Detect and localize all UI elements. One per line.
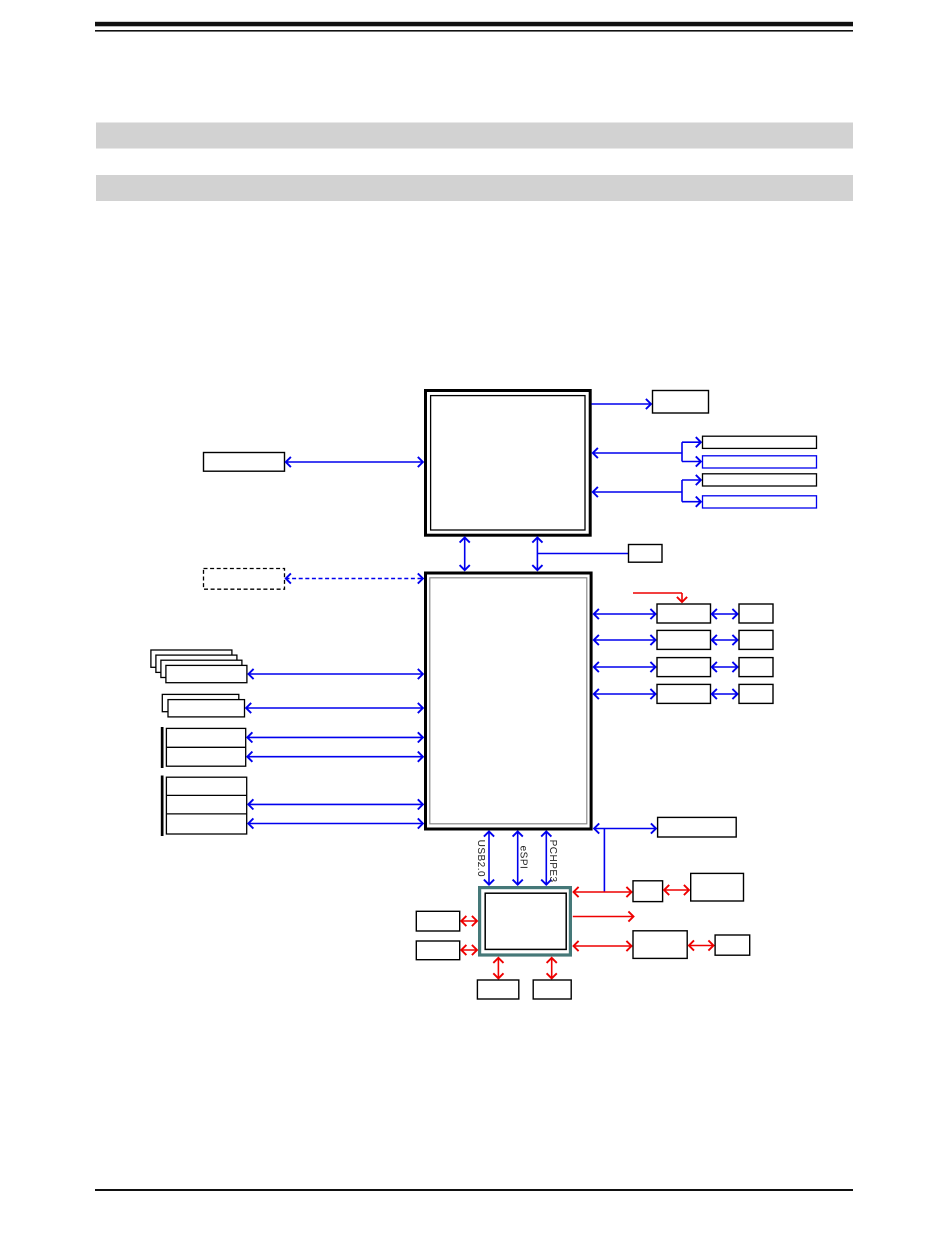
USB port stack (4 layered boxes) [151, 650, 247, 683]
svg-text:USB2.0: USB2.0 [475, 840, 486, 877]
BMC block U3 [480, 888, 571, 955]
svg-text:eSPI: eSPI [518, 846, 529, 870]
wire header B row 3 to PCH [248, 823, 423, 825]
wire PCH to M.2 row 4 [594, 693, 656, 695]
wire COM header to BMC [461, 920, 477, 922]
label eSPI [518, 846, 529, 870]
jumper box 2 [533, 980, 571, 999]
wire DMI tap to TPM box [537, 553, 628, 555]
COM header box (left of BMC, row 1) [416, 911, 459, 931]
wire BMC VGA stub (row 2) [573, 916, 634, 918]
wire PHY to LAN port box [664, 889, 690, 891]
wire BMC to jumper box 1 [497, 958, 499, 979]
wire M.2 box 4 to port 4 [712, 693, 738, 695]
header thin rule [95, 30, 853, 32]
wire PCH-BMC USB2.0 link [488, 831, 490, 885]
wire PCH to M.2 row 1 [594, 613, 656, 615]
svg-text:PCHPE3: PCHPE3 [547, 840, 558, 883]
SPI flash box [658, 817, 737, 837]
wire CPU to DIMM group 1 [593, 442, 702, 461]
TPM box [629, 545, 663, 563]
section title bar 2 [96, 175, 853, 201]
wire M.2 box 1 to port 1 [712, 613, 738, 615]
DIMM slot box 2B (blue) [703, 496, 817, 508]
wire BMC to DDR box (row 3) [573, 945, 632, 947]
port box 3 [739, 658, 773, 677]
wire CPU to clock box [592, 403, 652, 405]
wire PCH-BMC eSPI link [517, 831, 519, 885]
DIMM slot box 1A [703, 436, 817, 448]
header group A (2-row box with side bar) [161, 727, 246, 768]
wire header A row 2 to PCH [247, 756, 423, 758]
CPU block U1 [426, 391, 591, 536]
port box 2 [739, 630, 773, 649]
clock box (top right of CPU) [653, 391, 709, 414]
LAN port box [691, 873, 744, 901]
DDR box [633, 931, 687, 959]
wire header A row 1 to PCH [247, 736, 423, 738]
wire M.2 box 2 to port 2 [712, 639, 738, 641]
wire PCH-BMC PCHPE3 link [545, 831, 547, 885]
label USB2.0 [475, 840, 486, 877]
dashed wire expansion box to PCH [286, 578, 424, 580]
port box 4 [739, 684, 773, 703]
wire PCH to M.2 row 2 [594, 639, 656, 641]
red power feed wire to M.2 row 1 [633, 593, 682, 602]
section title bar 1 [96, 123, 853, 149]
wire DDR box to flash box [689, 945, 714, 947]
wire BMC to PHY box (row 1) [573, 891, 632, 893]
wire CPU to DIMM group 2 [593, 480, 702, 502]
SATA port stack (2 layered boxes) [162, 694, 244, 716]
wire SATA stack to PCH [246, 707, 423, 709]
wire PCH corner to SPI flash box [594, 828, 657, 830]
M.2 box 3 [657, 658, 711, 677]
wire CPU-PCH DMI link 1 [464, 537, 466, 570]
header thick rule [95, 22, 853, 27]
wire M.2 box 3 to port 3 [712, 666, 738, 668]
flash box [715, 935, 750, 955]
footer rule [95, 1189, 853, 1191]
header group B (3-row box with side bar) [161, 776, 247, 837]
jumper box 1 [477, 980, 518, 999]
M.2 box 4 [657, 684, 711, 703]
DIMM slot box 1B (blue) [703, 456, 817, 468]
PCH block U2 [426, 573, 592, 829]
PHY box [633, 881, 663, 902]
DIMM slot box 2A [703, 474, 817, 486]
dashed expansion box (left of PCH) [204, 569, 285, 590]
label PCHPE3 [547, 840, 558, 883]
wire CPU-PCH DMI link 2 [536, 537, 538, 570]
wire PCIe slot to CPU [286, 461, 424, 463]
M.2 box 1 [657, 604, 711, 623]
wire header B row 2 to PCH [248, 803, 423, 805]
wire fan header to BMC [461, 949, 477, 951]
PCIe x16 slot box (left of CPU) [204, 453, 285, 472]
fan header box (left of BMC, row 2) [416, 941, 459, 960]
M.2 box 2 [657, 630, 711, 649]
wire SPI drop to BMC row [603, 829, 605, 892]
wire USB stack to PCH [248, 673, 423, 675]
port box 1 [739, 604, 773, 623]
wire PCH to M.2 row 3 [594, 666, 656, 668]
wire BMC to jumper box 2 [551, 958, 553, 979]
